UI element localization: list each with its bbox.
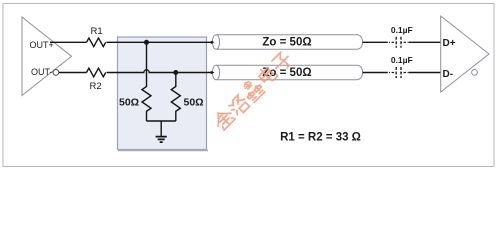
- svg-text:OUT+: OUT+: [30, 40, 54, 50]
- svg-text:0.1µF: 0.1µF: [391, 25, 413, 35]
- char luo: [227, 94, 250, 117]
- resistor R1: [87, 38, 106, 47]
- wire OUT+ to R1: [50, 41, 87, 43]
- wire T1 to C1: [363, 41, 388, 43]
- svg-text:R1 = R2 = 33 Ω: R1 = R2 = 33 Ω: [280, 131, 361, 143]
- termination network box: [118, 37, 207, 150]
- wire C2 to D-: [409, 72, 441, 74]
- junction dot node top: [144, 40, 149, 45]
- svg-text:D+: D+: [443, 38, 456, 49]
- wire T2 to C2: [363, 72, 388, 74]
- arrow into T2: [211, 71, 215, 74]
- wire R1 to transmission line T1 (top net): [107, 41, 212, 43]
- capacitor C2 0.1uF (dashed plates): [396, 67, 401, 78]
- bubble on receiver lower edge: [472, 70, 478, 76]
- capacitor C1 0.1uF (dashed plates): [396, 37, 401, 48]
- resistor R2: [87, 68, 106, 77]
- watermark (drawn strokes imitating CJK): [212, 51, 294, 132]
- svg-text:Zo = 50Ω: Zo = 50Ω: [262, 37, 311, 49]
- resistor RT2 50 ohm (vertical): [171, 75, 180, 121]
- junction dot node bottom: [173, 70, 178, 75]
- op-amp U2 receiver triangle: [441, 16, 489, 92]
- svg-text:R2: R2: [90, 81, 102, 92]
- wire bottom rail joining RT1 RT2: [147, 121, 176, 136]
- op-amp U1 driver triangle: [22, 17, 72, 96]
- inversion bubble on OUT-: [53, 70, 59, 76]
- char xin: [239, 77, 265, 103]
- arrow into T1: [211, 41, 215, 44]
- transmission line T2 cylinder: [216, 65, 363, 79]
- svg-text:OUT-: OUT-: [31, 67, 53, 77]
- svg-text:50Ω: 50Ω: [184, 96, 204, 108]
- transmission line T1 cylinder: [216, 35, 363, 49]
- wire C1 to D+: [409, 41, 441, 43]
- ground: [156, 137, 167, 143]
- wire R2 to transmission line T2 (bottom net, hops over RT1 lead): [107, 70, 212, 73]
- dash-dot lead into C1: [389, 41, 409, 43]
- char zi: [270, 51, 293, 74]
- svg-text:R1: R1: [91, 26, 103, 37]
- dash-dot lead into C2: [389, 72, 409, 74]
- svg-text:D-: D-: [443, 69, 454, 80]
- char dian: [257, 65, 278, 86]
- char jin: [212, 107, 236, 131]
- svg-text:50Ω: 50Ω: [119, 96, 139, 108]
- wire OUT- to R2: [59, 72, 87, 74]
- svg-text:0.1µF: 0.1µF: [391, 55, 413, 65]
- resistor RT1 50 ohm (vertical): [142, 42, 151, 121]
